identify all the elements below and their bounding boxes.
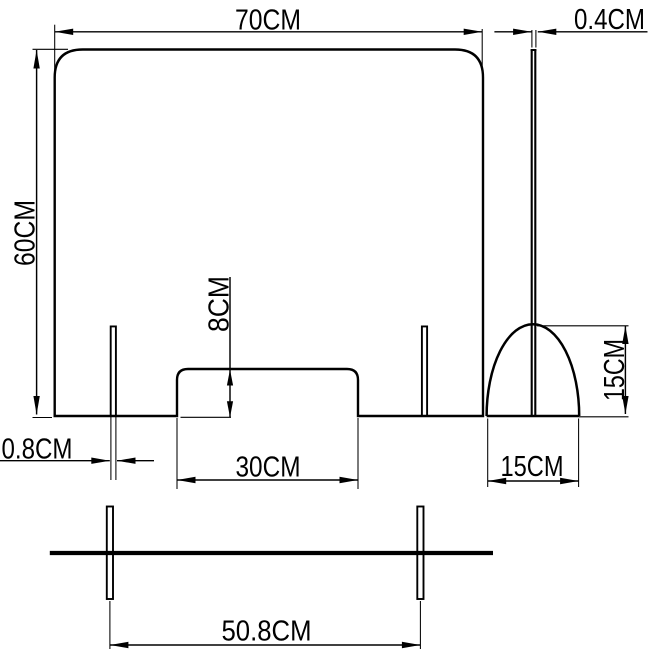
svg-text:8CM: 8CM bbox=[204, 276, 236, 332]
svg-text:0.8CM: 0.8CM bbox=[2, 434, 73, 466]
svg-text:60CM: 60CM bbox=[10, 200, 42, 266]
svg-text:70CM: 70CM bbox=[235, 5, 301, 37]
svg-text:15CM: 15CM bbox=[599, 339, 631, 401]
svg-text:15CM: 15CM bbox=[501, 451, 564, 483]
svg-text:50.8CM: 50.8CM bbox=[222, 616, 312, 648]
svg-text:30CM: 30CM bbox=[236, 452, 301, 484]
svg-text:0.4CM: 0.4CM bbox=[574, 4, 645, 36]
